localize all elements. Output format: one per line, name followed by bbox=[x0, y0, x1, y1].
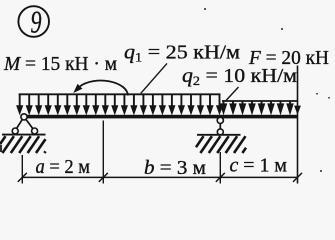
extension line at left support bbox=[21, 155, 23, 184]
distributed load q1 arrows bbox=[16, 94, 223, 115]
svg-text:F = 20 кН: F = 20 кН bbox=[248, 47, 329, 69]
ground line under roller support bbox=[197, 134, 241, 136]
page edge smudge bbox=[0, 145, 2, 152]
svg-text:9: 9 bbox=[31, 3, 42, 39]
svg-text:c = 1 м: c = 1 м bbox=[230, 155, 288, 177]
beam bbox=[21, 115, 298, 119]
pin support A: left base circle bbox=[12, 128, 18, 134]
extension line at x=a bbox=[102, 121, 104, 184]
hatching under roller support bbox=[196, 136, 246, 153]
distributed load q2 arrows bbox=[220, 101, 294, 115]
pin support A: apex hinge circle bbox=[21, 114, 27, 120]
roller support B: link bbox=[219, 123, 221, 129]
svg-text:M = 15 кН · м: M = 15 кН · м bbox=[3, 53, 117, 75]
roller support B: upper hinge circle bbox=[217, 117, 223, 123]
svg-text:a = 2 м: a = 2 м bbox=[36, 156, 91, 178]
dimension tick 2 bbox=[99, 173, 108, 182]
distributed load q2 top line bbox=[222, 100, 298, 102]
force F arrowhead bbox=[294, 106, 301, 115]
pin support A: left leg bbox=[16, 119, 22, 128]
leader line q1 bbox=[141, 63, 167, 93]
svg-text:q1 = 25 кН/м: q1 = 25 кН/м bbox=[124, 42, 240, 65]
pin support A: right base circle bbox=[32, 128, 38, 134]
roller support B: lower hinge circle bbox=[217, 129, 223, 135]
dimension tick 1 bbox=[18, 173, 27, 182]
dimension line bbox=[22, 176, 297, 178]
pin support A: right leg bbox=[26, 119, 33, 128]
circled problem number 9 bbox=[18, 3, 49, 39]
svg-text:b = 3 м: b = 3 м bbox=[144, 157, 206, 179]
moment arc arrow bbox=[73, 81, 128, 96]
scan noise specks bbox=[204, 8, 330, 172]
dimension tick 3 bbox=[216, 173, 225, 182]
dimension tick 4 bbox=[293, 173, 302, 182]
extension line at roller bbox=[219, 152, 221, 184]
leader line q2 bbox=[226, 87, 239, 101]
hatching under pin support bbox=[0, 136, 46, 153]
ground line under pin support bbox=[2, 134, 46, 136]
distributed load q1 top line bbox=[19, 93, 221, 95]
force F arrow line bbox=[297, 66, 299, 184]
